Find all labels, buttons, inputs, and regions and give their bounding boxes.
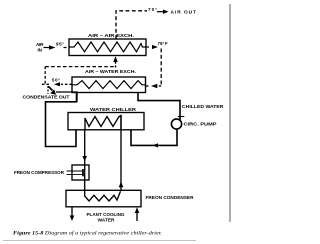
svg-text:PLANT COOLING: PLANT COOLING (87, 212, 126, 217)
wire: dashed into exchanger (64, 47, 70, 49)
water chiller box (68, 113, 144, 130)
node CONDENSATE OUT label (56, 92, 77, 102)
wire: 75F exit arrow (146, 46, 151, 48)
svg-text:Figure 15-8 Diagram of a typi: Figure 15-8 Diagram of a typical regener… (13, 230, 162, 237)
wire: compressor to condenser (84, 180, 86, 190)
wire: plant cooling water out arrow (71, 207, 73, 217)
svg-text:CIRC. PUMP: CIRC. PUMP (184, 122, 217, 127)
svg-text:CHILLED WATER: CHILLED WATER (182, 104, 224, 109)
wire: dashed regenerative top horizontal (45, 66, 115, 68)
svg-text:WATER: WATER (98, 217, 116, 222)
heat exchanger air-air box (69, 39, 146, 56)
svg-text:WATER CHILLER: WATER CHILLER (90, 107, 137, 112)
svg-text:50°: 50° (52, 78, 60, 83)
svg-text:AIR – AIR EXCH.: AIR – AIR EXCH. (88, 33, 134, 38)
svg-text:FREON COMPRESSOR: FREON COMPRESSOR (14, 170, 65, 175)
wire: 50 deg exit dashed left (61, 83, 72, 85)
wire: freon liquid return condenser to chiller (120, 116, 122, 191)
wire: dashed up into air-air exch bottom (115, 62, 117, 68)
wire: dashed air-out run from exchanger top (116, 11, 147, 39)
wire: pump down and return to chiller (131, 129, 177, 145)
svg-text:95°: 95° (56, 41, 64, 46)
coil in air-air exchanger (69, 42, 146, 52)
wire: dashed into air-water exch right (157, 85, 161, 87)
svg-text:CONDENSATE OUT: CONDENSATE OUT (23, 94, 70, 99)
wire: condensate diagonal arrow (49, 87, 53, 91)
pump circ pump circle (171, 119, 181, 129)
svg-text:AIR – WATER EXCH.: AIR – WATER EXCH. (85, 69, 136, 74)
wire: pump inlet tick (178, 116, 185, 118)
wire: return arrow (153, 143, 159, 147)
wire: chilled water return top (138, 93, 180, 122)
condenser freon condenser box (66, 190, 141, 207)
wire: air out arrow (157, 11, 164, 13)
svg-text:AIR: AIR (36, 42, 44, 47)
svg-text:F: F (165, 41, 168, 46)
heat exchanger air-water box (72, 77, 146, 93)
coil in freon condenser (85, 190, 121, 201)
svg-text:AIR OUT: AIR OUT (171, 10, 197, 16)
wire: chilled water supply left pipe (46, 93, 77, 147)
compressor freon compressor (72, 165, 89, 180)
wire: freon suction line chiller to compressor (84, 130, 86, 165)
wire: dashed regenerative left vertical (44, 67, 46, 84)
scan artifact bottom edge (3, 240, 196, 242)
svg-text:IN: IN (38, 48, 43, 53)
wire: dashed down right side (160, 49, 162, 87)
scan artifact right edge (229, 4, 231, 222)
svg-text:70°: 70° (148, 7, 157, 12)
svg-text:75°: 75° (158, 41, 165, 46)
coil in water chiller (85, 116, 121, 130)
wire: condensate drop dashes (47, 86, 49, 94)
svg-text:FREON CONDENSER: FREON CONDENSER (146, 195, 195, 200)
coil in air-water exchanger (72, 81, 146, 89)
wire: plant cooling water in arrow (136, 212, 138, 221)
wire: air in arrow (44, 47, 50, 49)
